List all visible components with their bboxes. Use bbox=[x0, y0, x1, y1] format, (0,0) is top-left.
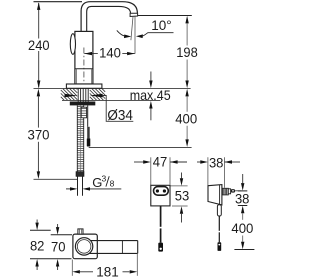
G3/8 arrow left bbox=[66, 188, 70, 190]
spout outlet mousepiece bbox=[130, 13, 138, 16]
wire body top extension to 53 dim bbox=[171, 185, 188, 187]
power supply 1 plug face bbox=[154, 187, 169, 196]
faucet spout inner contour bbox=[87, 6, 131, 31]
G3/8 arrow right with leader underline bbox=[83, 187, 91, 190]
svg-text:10°: 10° bbox=[151, 18, 171, 33]
svg-text:140: 140 bbox=[99, 44, 121, 60]
svg-text:8: 8 bbox=[110, 178, 115, 188]
svg-text:400: 400 bbox=[175, 110, 197, 126]
power supply 1 cable connector bbox=[158, 243, 163, 252]
diameter 34 arrow left bbox=[65, 94, 78, 98]
power supply 2 face plate edge bbox=[219, 185, 221, 205]
shared bottom tick 82 70 bbox=[30, 258, 72, 260]
base flange bbox=[66, 84, 102, 88]
leader line from plug tip to dimension bbox=[235, 190, 241, 192]
top view body circle bbox=[75, 238, 92, 255]
cable plug connector bbox=[87, 138, 91, 146]
label max.45 bbox=[129, 89, 172, 99]
dimension 240 vertical line bbox=[38, 3, 40, 88]
sensor cable below counter bbox=[87, 105, 89, 126]
svg-text:82: 82 bbox=[30, 237, 45, 253]
wire outlet extension line down bbox=[134, 17, 136, 54]
power supply 1 cable bbox=[160, 206, 162, 227]
svg-text:370: 370 bbox=[28, 127, 50, 143]
arc arrow right of 10-degree callout bbox=[140, 33, 148, 37]
svg-text:Ø34: Ø34 bbox=[107, 107, 132, 124]
hose clip detail bbox=[81, 107, 86, 118]
power supply 2 plug tip bbox=[231, 189, 236, 193]
leader line to diameter label bbox=[103, 96, 134, 122]
dimension 140 line bbox=[84, 53, 135, 55]
power supply 2 cable bbox=[218, 216, 220, 231]
hose end nut bbox=[76, 172, 84, 177]
dimension max.45 upper arrow bbox=[150, 72, 152, 82]
svg-text:47: 47 bbox=[153, 153, 168, 169]
plug face pin holes bbox=[156, 189, 159, 192]
arc arrow left of 10-degree callout bbox=[117, 30, 125, 36]
flexible hose braided bbox=[77, 107, 83, 171]
diameter 34 arrow right bbox=[90, 94, 103, 98]
cable plug shaft bbox=[87, 127, 90, 139]
arrowhead down 240 bottom bbox=[37, 81, 40, 89]
svg-text:240: 240 bbox=[28, 37, 50, 53]
wire 10-degree tilted line bbox=[131, 17, 133, 41]
power supply 2 plug barrel ribbed bbox=[222, 188, 228, 195]
power supply 2 cable connector bbox=[218, 242, 222, 251]
power supply 2 plug collar bbox=[228, 189, 230, 194]
counter hatching right bbox=[90, 89, 105, 100]
mounting locknut bbox=[70, 102, 96, 106]
top view spout bar bbox=[91, 240, 138, 242]
dimension 400 left vertical bbox=[185, 89, 188, 97]
wire spout top extension line bbox=[34, 1, 83, 3]
dimension 82 bbox=[36, 220, 38, 223]
counter top line bbox=[34, 87, 191, 89]
counter hatching left bbox=[61, 89, 78, 100]
wire spout outlet reference line right bbox=[138, 15, 192, 17]
label 10 degrees underline bbox=[148, 32, 174, 34]
dimension 70 bbox=[57, 224, 59, 227]
dimension 53 bbox=[181, 173, 183, 179]
svg-text:3: 3 bbox=[102, 173, 107, 183]
faucet body bbox=[75, 31, 93, 84]
svg-text:38: 38 bbox=[235, 191, 250, 207]
wire hose end extension line bbox=[34, 178, 78, 180]
dimension line 47 and 38 horizontal bbox=[134, 161, 240, 163]
dimension 370 vertical line bbox=[37, 89, 40, 97]
svg-text:38: 38 bbox=[209, 155, 224, 171]
svg-text:198: 198 bbox=[176, 44, 198, 60]
wire cable length reference line bbox=[89, 146, 192, 148]
top view square escutcheon bbox=[73, 234, 97, 259]
svg-text:70: 70 bbox=[51, 238, 66, 254]
arrowhead up 240 top bbox=[37, 2, 40, 10]
dimension 198 vertical bbox=[185, 16, 188, 24]
svg-text:max.45: max.45 bbox=[130, 87, 171, 103]
faucet body centre line dash-dot bbox=[83, 48, 85, 88]
faucet body lower inner lines bbox=[75, 69, 77, 84]
svg-text:181: 181 bbox=[96, 264, 119, 280]
label 140 bbox=[98, 47, 123, 59]
dimension 181 bbox=[71, 260, 73, 276]
dimension 38 right vertical bbox=[242, 174, 244, 183]
faucet body section line bbox=[75, 68, 93, 70]
svg-text:53: 53 bbox=[175, 188, 190, 204]
power supply 2 body side view bbox=[208, 185, 222, 205]
arrowhead left 140 bbox=[84, 52, 92, 55]
G3/8 connection tube bbox=[77, 176, 79, 195]
counter bottom line bbox=[62, 99, 161, 101]
shank vertical lines bbox=[78, 88, 88, 101]
dimension max.45 lower arrow bbox=[149, 101, 152, 109]
faucet spout outer contour bbox=[81, 2, 137, 32]
svg-text:400: 400 bbox=[231, 220, 253, 236]
top view sensor tab bbox=[78, 229, 83, 234]
power supply 1 body bbox=[151, 185, 170, 206]
extension lines power supply 1 bbox=[151, 157, 225, 188]
power supply 2 strain relief bbox=[217, 205, 221, 216]
sensor window oval bbox=[70, 34, 75, 55]
arrowhead right 140 bbox=[127, 52, 135, 55]
